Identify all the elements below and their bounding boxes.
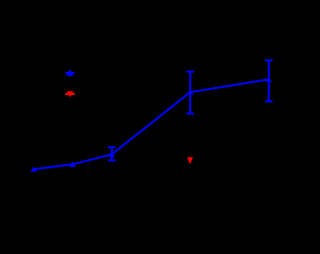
blue triangle-up marker p5 [266,77,272,82]
legend blue line [65,72,74,74]
blue triangle-up marker p2 [70,162,76,167]
legend red triangle-down marker [67,91,74,97]
blue triangle-up marker p4 [187,89,193,94]
legend red line [65,93,74,95]
blue triangle-up marker p1 [31,166,37,171]
blue errorbar point3 [108,147,116,160]
blue data line [34,79,269,169]
blue errorbar point4 [186,72,194,114]
blue triangle-up marker p3 [109,152,115,157]
legend blue triangle-up marker [67,69,74,76]
blue errorbar point5 [265,60,273,101]
red triangle-down marker [187,157,193,164]
